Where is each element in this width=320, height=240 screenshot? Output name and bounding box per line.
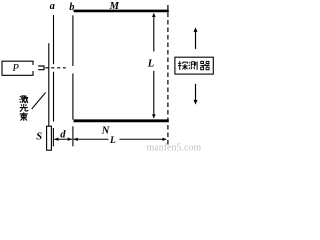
svg-text:N: N [101, 126, 110, 137]
dimension L vertical shaft [153, 16, 155, 116]
dashed detection plane [167, 5, 169, 146]
svg-text:manfen5.com: manfen5.com [147, 143, 202, 152]
mirror M [74, 10, 169, 13]
dimension L vertical arrowheads [152, 13, 156, 17]
svg-text:L: L [147, 58, 154, 69]
svg-text:S: S [36, 132, 42, 143]
label 探测器 char 器 [200, 61, 209, 69]
dimension d arrowheads [54, 138, 58, 141]
detector box [175, 57, 213, 74]
label 激光束 char 光 [20, 104, 28, 112]
detector up arrow [195, 31, 197, 49]
laser beam dashed axis [45, 67, 66, 69]
leader line to beam [32, 93, 46, 110]
svg-text:M: M [109, 1, 120, 12]
plate b [72, 15, 74, 119]
mirror N [74, 119, 169, 122]
dimension d right tick [72, 126, 74, 146]
label 探测器 char 测 [189, 61, 197, 70]
slit plate S [47, 126, 52, 150]
svg-text:P: P [12, 63, 20, 74]
detector down arrow [195, 84, 197, 101]
plate S stem [48, 43, 50, 126]
laser box P [2, 61, 33, 75]
plate a [53, 15, 55, 122]
dimension L horizontal shaft [74, 138, 164, 140]
svg-text:d: d [60, 130, 66, 141]
svg-text:a: a [50, 1, 55, 12]
label 激光束 char 激 [20, 96, 29, 104]
aperture bracket [38, 66, 44, 71]
svg-text:L: L [109, 136, 116, 146]
dimension d left tick [52, 128, 54, 146]
dimension d shaft [54, 138, 72, 140]
label 探测器 char 探 [178, 61, 188, 70]
label 激光束 char 束 [20, 112, 28, 120]
dimension L horizontal arrowheads [73, 138, 77, 141]
